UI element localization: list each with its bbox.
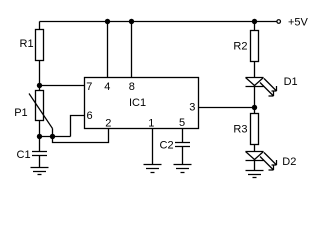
wire +5V to R2 <box>254 22 256 31</box>
svg-text:C1: C1 <box>17 149 31 161</box>
svg-text:5: 5 <box>179 117 185 129</box>
resistor R3 <box>251 114 259 145</box>
junction node pin3/D1/R3 <box>252 105 257 110</box>
svg-text:4: 4 <box>104 81 110 93</box>
ground below D2 <box>246 171 264 178</box>
wire to pin 2 <box>53 129 109 143</box>
resistor R1 <box>36 30 44 61</box>
LED D1 arrows <box>260 79 277 97</box>
wire P1 bottom to C1 <box>39 121 41 152</box>
ground below pin 1 <box>144 165 162 173</box>
svg-text:7: 7 <box>86 81 92 93</box>
svg-text:R1: R1 <box>20 38 34 50</box>
wire to pin 6 <box>71 116 85 137</box>
svg-text:R3: R3 <box>233 124 247 136</box>
wire node to pin 7 <box>40 85 85 87</box>
wire R1 top stub <box>39 22 41 30</box>
potentiometer P1 body <box>36 91 44 121</box>
wire pin 1 to ground <box>152 129 154 165</box>
svg-text:D2: D2 <box>282 156 296 168</box>
wire R1 bottom to P1 top <box>39 61 41 91</box>
capacitor C2 <box>175 143 190 165</box>
junction node R1/P1/pin7 <box>37 83 42 88</box>
wire R3 to D2 <box>254 145 256 152</box>
svg-text:2: 2 <box>105 118 111 130</box>
svg-text:D1: D1 <box>284 76 298 88</box>
wire top +5V rail <box>40 21 277 23</box>
svg-text:+5V: +5V <box>288 17 309 29</box>
LED D2 arrows <box>260 153 277 171</box>
svg-text:C2: C2 <box>160 140 174 152</box>
svg-text:3: 3 <box>189 102 195 114</box>
junction node P1 wiper <box>50 134 55 139</box>
LED D2 triangle diagonals <box>246 152 264 160</box>
wire pin 5 to C2 <box>182 129 184 143</box>
potentiometer P1 wiper tail <box>52 129 54 137</box>
potentiometer P1 wiper diagonal <box>29 94 53 129</box>
LED D1 <box>246 78 264 108</box>
junction node rail pin8 <box>129 19 134 24</box>
resistor R2 <box>251 31 259 62</box>
op-amp/timer IC1 box <box>85 78 199 129</box>
wire pin 4 <box>107 22 109 78</box>
LED D2 <box>246 152 264 171</box>
svg-text:IC1: IC1 <box>129 97 146 109</box>
wire between bottom junctions <box>40 136 71 138</box>
wire pin 3 to LED node <box>199 107 255 109</box>
capacitor C1 <box>32 152 47 168</box>
svg-text:P1: P1 <box>14 107 27 119</box>
wire pin 8 <box>131 22 133 78</box>
ground below C1 <box>31 168 49 175</box>
svg-text:R2: R2 <box>233 41 247 53</box>
ground below C2 <box>174 165 192 173</box>
+5V open terminal <box>277 20 281 24</box>
junction node rail pin4 <box>105 19 110 24</box>
svg-text:1: 1 <box>148 118 154 130</box>
wire node to R3 <box>254 108 256 114</box>
LED D1 triangle diagonals <box>246 78 264 86</box>
svg-text:8: 8 <box>129 81 135 93</box>
junction node P1 bottom left <box>37 134 42 139</box>
wire R2 to D1 <box>254 62 256 78</box>
junction node rail R2 <box>252 19 257 24</box>
svg-text:6: 6 <box>87 110 93 122</box>
